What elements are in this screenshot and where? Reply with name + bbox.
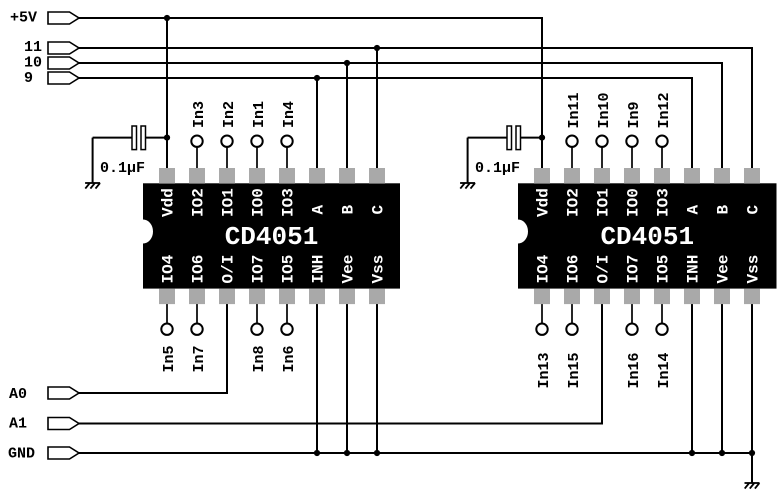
svg-text:O/I: O/I — [595, 255, 613, 284]
wire U1 top terminal stub x=287 — [286, 145, 288, 176]
wire U1 bottom terminal stub x=167 — [166, 296, 168, 326]
svg-text:INH: INH — [685, 255, 703, 284]
junction net11 / U1 C — [374, 45, 380, 51]
svg-text:In8: In8 — [251, 345, 268, 372]
wire U2 INH to GND — [691, 296, 693, 453]
wire U2 top terminal stub x=602 — [601, 145, 603, 176]
terminal In9 — [626, 136, 637, 147]
wire U2 bottom terminal stub x=632 — [631, 296, 633, 326]
junction GND / U2 Vss — [749, 450, 755, 456]
junction +5V / U1 Vdd — [164, 15, 170, 21]
IC U2 pin pads — [534, 168, 760, 304]
svg-text:+5V: +5V — [10, 10, 37, 27]
svg-text:A: A — [685, 205, 703, 215]
svg-text:IO5: IO5 — [280, 255, 298, 284]
svg-text:Vss: Vss — [745, 255, 763, 284]
svg-text:IO4: IO4 — [160, 254, 178, 283]
IC U1 pin pads — [159, 168, 385, 304]
wire net 11 to C pins — [79, 48, 752, 176]
terminal In13 — [536, 324, 547, 335]
wire U1 top terminal stub x=227 — [226, 145, 228, 176]
svg-text:C: C — [370, 205, 388, 215]
connector A1 — [9, 416, 79, 433]
terminal In6 — [281, 324, 292, 335]
wire A0 to U1 O/I — [79, 296, 227, 393]
terminal In15 — [566, 324, 577, 335]
terminal In2 — [221, 136, 232, 147]
junction GND / U1 Vss — [374, 450, 380, 456]
svg-text:In13: In13 — [536, 352, 553, 388]
svg-text:In2: In2 — [221, 101, 238, 128]
terminal In4 — [281, 136, 292, 147]
wire U1 bottom terminal stub x=257 — [256, 296, 258, 326]
terminal In8 — [251, 324, 262, 335]
svg-text:CD4051: CD4051 — [225, 222, 319, 252]
connector GND — [8, 446, 79, 463]
svg-text:In5: In5 — [161, 345, 178, 372]
svg-text:INH: INH — [310, 255, 328, 284]
svg-text:10: 10 — [24, 55, 42, 72]
svg-text:0.1µF: 0.1µF — [100, 160, 145, 177]
svg-text:9: 9 — [24, 70, 33, 87]
svg-text:GND: GND — [8, 446, 35, 463]
wire U1 Vss to GND — [376, 296, 378, 453]
svg-text:IO3: IO3 — [280, 188, 298, 217]
connector 9 — [24, 70, 79, 87]
terminal In5 — [161, 324, 172, 335]
wire U1 pin C drop — [376, 48, 378, 176]
connector A0 — [9, 386, 79, 403]
wire U1 pin A drop — [316, 78, 318, 176]
svg-text:IO1: IO1 — [595, 188, 613, 217]
connector 10 — [24, 55, 79, 72]
svg-text:In1: In1 — [251, 101, 268, 128]
svg-text:A1: A1 — [9, 416, 27, 433]
ground at C2 — [460, 183, 475, 189]
wire U2 top terminal stub x=662 — [661, 145, 663, 176]
svg-text:IO3: IO3 — [655, 188, 673, 217]
wire GND rail — [79, 452, 752, 454]
svg-text:IO0: IO0 — [250, 188, 268, 217]
wire U1 Vdd drop — [166, 18, 168, 176]
svg-text:In11: In11 — [566, 92, 583, 128]
junction GND / U1 Vee — [344, 450, 350, 456]
svg-text:In10: In10 — [596, 92, 613, 128]
svg-text:IO5: IO5 — [655, 255, 673, 284]
wire U1 top terminal stub x=197 — [196, 145, 198, 176]
svg-text:IO7: IO7 — [250, 255, 268, 284]
wire U1 INH to GND — [316, 296, 318, 453]
svg-text:In9: In9 — [626, 101, 643, 128]
terminal In14 — [656, 324, 667, 335]
svg-text:Vdd: Vdd — [160, 188, 178, 217]
wire U1 Vee to GND — [346, 296, 348, 453]
svg-text:In14: In14 — [656, 352, 673, 388]
terminal In16 — [626, 324, 637, 335]
wire U1 pin B drop — [346, 63, 348, 176]
svg-text:B: B — [340, 205, 358, 215]
svg-text:C: C — [745, 205, 763, 215]
wire U2 Vss to GND and earth — [751, 296, 753, 483]
wire U2 bottom terminal stub x=572 — [571, 296, 573, 326]
ground at U2 Vss — [745, 483, 760, 489]
svg-text:In12: In12 — [656, 92, 673, 128]
svg-text:Vdd: Vdd — [535, 188, 553, 217]
terminal In10 — [596, 136, 607, 147]
svg-text:IO6: IO6 — [565, 255, 583, 284]
svg-text:Vee: Vee — [340, 255, 358, 284]
terminal In12 — [656, 136, 667, 147]
svg-text:IO7: IO7 — [625, 255, 643, 284]
svg-text:IO6: IO6 — [190, 255, 208, 284]
wire U2 bottom terminal stub x=542 — [541, 296, 543, 326]
wire U2 top terminal stub x=632 — [631, 145, 633, 176]
wire U2 bottom terminal stub x=662 — [661, 296, 663, 326]
svg-text:A0: A0 — [9, 386, 27, 403]
svg-text:B: B — [715, 205, 733, 215]
svg-text:IO0: IO0 — [625, 188, 643, 217]
junction C2 / U2 Vdd — [539, 135, 545, 141]
capacitor C1 0.1uF — [93, 126, 167, 183]
wire +5V rail — [79, 18, 542, 176]
wire A1 to U2 O/I — [79, 296, 602, 424]
wire U1 top terminal stub x=257 — [256, 145, 258, 176]
svg-text:Vss: Vss — [370, 255, 388, 284]
svg-text:11: 11 — [24, 39, 42, 56]
wire U1 bottom terminal stub x=287 — [286, 296, 288, 326]
junction GND / U1 INH — [314, 450, 320, 456]
terminal In3 — [191, 136, 202, 147]
svg-text:A: A — [310, 205, 328, 215]
wire net 9 to A pins — [79, 78, 692, 176]
svg-text:In16: In16 — [626, 352, 643, 388]
terminal In7 — [191, 324, 202, 335]
ground at C1 — [85, 183, 100, 189]
junction net10 / U1 B — [344, 60, 350, 66]
wire U2 Vee to GND — [721, 296, 723, 453]
svg-text:In7: In7 — [191, 345, 208, 372]
svg-text:In4: In4 — [281, 101, 298, 128]
terminal In11 — [566, 136, 577, 147]
svg-text:IO1: IO1 — [220, 188, 238, 217]
svg-text:In6: In6 — [281, 345, 298, 372]
svg-text:IO4: IO4 — [535, 254, 553, 283]
junction C1 / U1 Vdd — [164, 135, 170, 141]
svg-text:In15: In15 — [566, 352, 583, 388]
junction net9 / U1 A — [314, 75, 320, 81]
IC U1 CD4051 body — [133, 183, 400, 288]
wire U1 bottom terminal stub x=197 — [196, 296, 198, 326]
svg-text:IO2: IO2 — [190, 188, 208, 217]
svg-text:O/I: O/I — [220, 255, 238, 284]
connector 11 — [24, 39, 79, 56]
capacitor C2 0.1uF — [468, 126, 542, 183]
svg-text:CD4051: CD4051 — [600, 222, 694, 252]
wire U2 top terminal stub x=572 — [571, 145, 573, 176]
junction GND / U2 Vee — [719, 450, 725, 456]
svg-text:0.1µF: 0.1µF — [475, 160, 520, 177]
terminal In1 — [251, 136, 262, 147]
IC U2 CD4051 body — [508, 183, 777, 288]
svg-text:Vee: Vee — [715, 255, 733, 284]
connector +5V — [10, 10, 79, 27]
svg-text:IO2: IO2 — [565, 188, 583, 217]
svg-text:In3: In3 — [191, 101, 208, 128]
junction GND / U2 INH — [689, 450, 695, 456]
wire net 10 to B pins — [79, 63, 722, 176]
